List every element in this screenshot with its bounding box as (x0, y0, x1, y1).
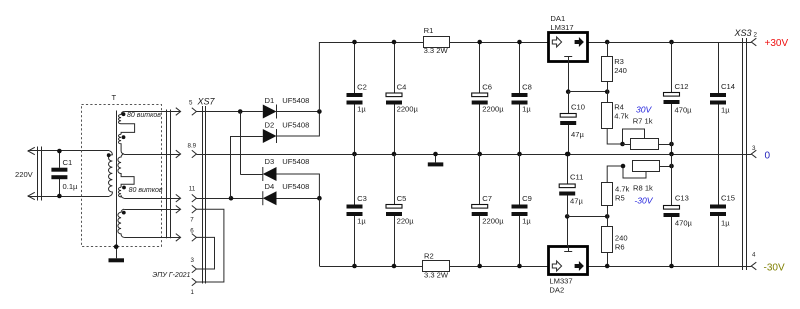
svg-text:1µ: 1µ (522, 217, 531, 226)
capacitor C2 (354, 42, 356, 93)
wire D3 anode down (277, 174, 320, 198)
svg-text:2200µ: 2200µ (397, 105, 419, 114)
W2 start dot (122, 135, 126, 139)
svg-text:R7 1k: R7 1k (633, 117, 653, 126)
svg-text:C1: C1 (63, 158, 73, 167)
primary winding dot (107, 153, 111, 157)
svg-text:220V: 220V (15, 170, 34, 179)
svg-text:UF5408: UF5408 (282, 96, 309, 105)
pin 8.9 socket (192, 150, 197, 158)
W4 start dot (122, 186, 126, 190)
svg-text:1µ: 1µ (522, 105, 531, 114)
svg-text:30V: 30V (636, 105, 653, 115)
node DA1 adj (566, 89, 571, 94)
node C4 top (392, 40, 397, 45)
resistor R7 1k (trimmer) (631, 139, 659, 150)
wire DA1 adj stub (568, 62, 570, 92)
pin 7 plug arrow (176, 206, 181, 214)
resistor R2 (423, 261, 450, 272)
svg-text:C2: C2 (357, 83, 367, 92)
wire R4 top stub (607, 92, 609, 103)
wire 220V line top (28, 150, 109, 152)
svg-text:R5: R5 (615, 194, 625, 203)
transformer T dashed box (82, 105, 162, 247)
pin 2 socket XS3 (751, 38, 756, 46)
svg-text:7: 7 (190, 216, 194, 223)
node ground tap (433, 152, 438, 157)
svg-text:D3: D3 (265, 157, 275, 166)
W1 start dot (122, 112, 126, 116)
svg-text:0: 0 (765, 151, 771, 162)
node C1 bottom (57, 194, 62, 199)
node C4 bottom (392, 152, 397, 157)
ground (transformer screen) (109, 258, 125, 262)
capacitor C12 (671, 42, 673, 93)
wire plus riser (318, 42, 320, 112)
svg-text:220µ: 220µ (397, 217, 415, 226)
cable bracket lines (166, 110, 168, 239)
svg-text:80 витков: 80 витков (129, 187, 163, 194)
wire pin5 to D1 (196, 111, 262, 113)
svg-text:R2: R2 (424, 252, 434, 261)
wire 220V line bottom (28, 196, 109, 198)
node C1 top (57, 149, 62, 154)
secondary winding W2 (119, 134, 125, 154)
wire DA2 adj stub (567, 216, 569, 246)
svg-text:1µ: 1µ (357, 105, 366, 114)
wire D3 cathode riser (240, 112, 242, 175)
wire R7 left stub (623, 144, 632, 146)
svg-text:C4: C4 (397, 83, 407, 92)
capacitor C11 (567, 154, 569, 184)
wire DA1 adj to R3R4 (568, 91, 607, 93)
diode D3 UF5408 (263, 167, 277, 181)
svg-text:C10: C10 (571, 103, 585, 112)
svg-text:R1: R1 (424, 26, 434, 35)
capacitor C8 (519, 42, 521, 93)
node R3R4 junction (605, 89, 610, 94)
wire top rail left (319, 42, 423, 44)
node minus rect (317, 196, 322, 201)
capacitor C5 (394, 154, 396, 205)
svg-text:C5: C5 (397, 194, 407, 203)
svg-text:0.1µ: 0.1µ (63, 182, 79, 191)
node C10 bottom (566, 152, 571, 157)
svg-text:C3: C3 (357, 194, 367, 203)
diode D2 UF5408 (263, 129, 277, 143)
wire D2 anode riser (230, 136, 232, 198)
svg-text:240: 240 (614, 66, 627, 75)
wire 8.9 row (0 tap) (124, 154, 180, 156)
svg-text:1: 1 (191, 289, 195, 296)
pin 11 socket (192, 194, 197, 202)
svg-text:3.3 2W: 3.3 2W (424, 271, 449, 280)
svg-text:LM337: LM337 (549, 277, 572, 286)
capacitor C6 (479, 42, 481, 93)
transformer screen line (116, 111, 118, 259)
node C12 top (669, 40, 674, 45)
node screen at box edge (114, 244, 119, 249)
capacitor C4 (394, 42, 396, 93)
pin 7 socket (192, 206, 197, 214)
svg-text:C15: C15 (721, 194, 735, 203)
secondary winding W1 (119, 112, 135, 135)
svg-text:DA1: DA1 (550, 14, 565, 23)
capacitor C1 (59, 151, 61, 168)
wire top rail mid (449, 42, 549, 44)
wire pin11 row (124, 198, 180, 200)
node D2 tap on pin11 row (229, 196, 234, 201)
pin 11 plug arrow (176, 194, 181, 202)
svg-text:-30V: -30V (764, 263, 785, 274)
wire DA2 adj to R5R6 (567, 216, 607, 218)
svg-text:XS3: XS3 (734, 28, 752, 38)
node C6 bottom (477, 152, 482, 157)
svg-text:LM317: LM317 (550, 23, 573, 32)
svg-text:R6: R6 (615, 243, 625, 252)
svg-text:C11: C11 (570, 173, 583, 182)
resistor R1 (424, 37, 450, 48)
svg-text:+30V: +30V (765, 38, 789, 49)
wire R7 right (658, 144, 672, 146)
W5 start dot (122, 211, 126, 215)
220V plug arrow bottom (28, 192, 35, 199)
wire pin7 row (124, 209, 180, 211)
svg-text:11: 11 (189, 186, 196, 193)
capacitor C10 (568, 92, 570, 114)
node DA2 adj (565, 214, 570, 219)
wire R6 bottom stub (607, 253, 609, 266)
node C7 bottom (477, 264, 482, 269)
svg-text:1µ: 1µ (357, 217, 366, 226)
node C12 mid rail (669, 152, 674, 157)
svg-text:UF5408: UF5408 (282, 182, 309, 191)
wire R3 top stub (607, 42, 609, 57)
resistor R5 (602, 183, 613, 206)
svg-text:D2: D2 (265, 120, 275, 129)
pin 3 socket XS3 (751, 150, 756, 158)
node C5 bottom (392, 264, 397, 269)
node R5R6 junction (605, 214, 610, 219)
svg-text:2200µ: 2200µ (482, 217, 504, 226)
pin 5 plug arrow (176, 108, 181, 116)
node C8 top (517, 40, 522, 45)
capacitor C14 (718, 42, 720, 93)
svg-text:C9: C9 (522, 194, 532, 203)
wire D3 cathode (240, 174, 263, 176)
regulator DA2 LM337 (549, 247, 588, 275)
wire mid rail (0) (196, 154, 751, 156)
wire D2 anode (231, 136, 263, 138)
secondary winding W3 (118, 154, 134, 187)
pin 6 socket (192, 234, 197, 242)
resistor R8 1k (trimmer) (633, 161, 660, 172)
node C3 bottom (352, 264, 357, 269)
wire R3 bottom stub (607, 82, 609, 92)
svg-text:240: 240 (615, 234, 628, 243)
svg-text:2: 2 (754, 31, 758, 38)
pin 4 socket XS3 (751, 262, 756, 270)
R7 wiper (623, 129, 645, 144)
svg-text:3: 3 (191, 257, 195, 264)
svg-text:C8: C8 (522, 83, 532, 92)
svg-text:C13: C13 (675, 194, 689, 203)
pin 8.9 plug arrow (176, 150, 181, 158)
node D3 tap on pin5 row (238, 109, 243, 114)
svg-text:47µ: 47µ (570, 197, 583, 206)
wire minus riser (319, 198, 321, 266)
svg-text:R4: R4 (614, 103, 624, 112)
secondary winding W4 (119, 187, 125, 198)
wire bottom rail right (587, 266, 751, 268)
svg-text:-30V: -30V (634, 196, 653, 206)
wire bottom rail mid (450, 266, 549, 268)
node R7 right (669, 142, 674, 147)
wire R8 right (660, 166, 672, 168)
mains plug double bar (37, 147, 39, 201)
capacitor C15 (718, 154, 720, 205)
wire D4 anode to - node (277, 198, 320, 200)
wire pin11 to D4 (196, 198, 262, 200)
wire R5 top to R8 (607, 166, 623, 182)
220V plug arrow top (28, 147, 35, 154)
svg-text:D1: D1 (265, 96, 275, 105)
svg-text:DA2: DA2 (549, 286, 564, 295)
pin 1 socket (192, 278, 197, 286)
node C13 bottom (669, 264, 674, 269)
svg-text:ЭПУ Г-2021: ЭПУ Г-2021 (152, 272, 190, 279)
diode D4 UF5408 (263, 191, 277, 205)
transformer primary winding (108, 151, 112, 196)
svg-text:470µ: 470µ (675, 106, 693, 115)
node R7 left (620, 142, 625, 147)
svg-text:3.3 2W: 3.3 2W (424, 46, 449, 55)
svg-text:1µ: 1µ (721, 106, 730, 115)
wire bottom rail left (319, 266, 422, 268)
resistor R4 (602, 103, 613, 129)
svg-text:1µ: 1µ (721, 219, 730, 228)
svg-text:8.9: 8.9 (188, 142, 197, 149)
svg-text:R3: R3 (614, 57, 624, 66)
wire R5 bottom stub (607, 206, 609, 217)
R8 wiper (623, 166, 646, 178)
node C2 top (352, 40, 357, 45)
svg-text:47µ: 47µ (571, 130, 584, 139)
wire D1 cathode to + node (277, 111, 320, 113)
svg-text:470µ: 470µ (675, 219, 693, 228)
node R8 right (669, 164, 674, 169)
diode D1 UF5408 (263, 105, 277, 119)
node R3 top (605, 40, 610, 45)
svg-text:XS7: XS7 (197, 97, 216, 107)
wire pin6-pin3 loop (196, 237, 214, 269)
svg-text:6: 6 (190, 227, 194, 234)
wire D2 cathode up (277, 112, 320, 137)
svg-text:D4: D4 (265, 182, 275, 191)
svg-text:T: T (112, 93, 117, 102)
wire pin7-pin1 loop (196, 209, 224, 282)
capacitor C7 (479, 154, 481, 205)
svg-text:4.7k: 4.7k (615, 185, 630, 194)
resistor R6 (602, 227, 613, 253)
svg-text:4: 4 (752, 251, 756, 258)
svg-text:UF5408: UF5408 (282, 157, 309, 166)
node C6 top (477, 40, 482, 45)
svg-text:C14: C14 (721, 82, 735, 91)
wire R4 bottom to R7 (607, 128, 622, 144)
ground (mid rail) (435, 154, 437, 162)
svg-text:4.7k: 4.7k (614, 112, 629, 121)
node C2 bottom (352, 152, 357, 157)
svg-text:C12: C12 (675, 82, 689, 91)
svg-text:2200µ: 2200µ (482, 105, 504, 114)
node R6 bottom (605, 264, 610, 269)
node C8 bottom (517, 152, 522, 157)
resistor R3 (602, 57, 613, 82)
secondary winding W5 (118, 209, 124, 237)
svg-text:C7: C7 (482, 194, 492, 203)
svg-text:80 витков: 80 витков (127, 112, 161, 119)
pin 5 socket (192, 108, 197, 116)
svg-text:5: 5 (189, 100, 193, 107)
svg-text:3: 3 (752, 145, 756, 152)
wire R6 top stub (607, 216, 609, 227)
svg-text:R8 1k: R8 1k (633, 184, 653, 193)
node C11 top (565, 152, 570, 157)
pin 3 socket (192, 265, 197, 273)
capacitor C3 (354, 154, 356, 205)
wire pin6 row (124, 237, 180, 239)
node plus rect (317, 109, 322, 114)
node R8 left (621, 164, 626, 169)
connector XS3 body (742, 38, 744, 270)
wire pin5 row (124, 111, 180, 113)
svg-text:UF5408: UF5408 (282, 120, 309, 129)
pin 6 plug arrow (176, 234, 181, 242)
node C9 bottom (517, 264, 522, 269)
op-amp U DA1 LM317 regulator (549, 33, 588, 62)
wire top rail right (587, 42, 751, 44)
capacitor C9 (519, 154, 521, 205)
connector XS7 body (202, 106, 204, 284)
svg-text:C6: C6 (482, 83, 492, 92)
capacitor C13 (671, 154, 673, 206)
